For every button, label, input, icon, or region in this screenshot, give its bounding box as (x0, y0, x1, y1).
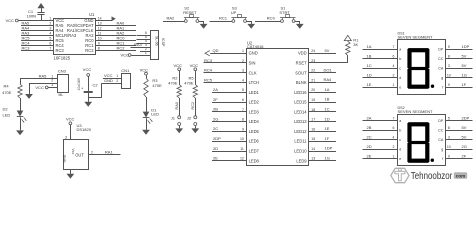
svg-text:LED13: LED13 (294, 119, 307, 124)
svg-text:a: a (399, 48, 401, 52)
svg-text:VCC: VCC (6, 18, 15, 23)
svg-text:20: 20 (311, 88, 315, 92)
svg-text:b: b (399, 57, 401, 61)
svg-text:ICSP: ICSP (161, 38, 165, 47)
svg-text:5V: 5V (462, 63, 467, 68)
svg-text:e: e (399, 86, 401, 90)
svg-text:Tehnoobzor: Tehnoobzor (411, 171, 453, 182)
svg-text:VCC: VCC (35, 85, 44, 90)
svg-text:2: 2 (91, 151, 93, 155)
svg-text:a: a (399, 119, 401, 123)
svg-text:10: 10 (447, 73, 451, 77)
svg-text:RA1: RA1 (105, 150, 114, 155)
svg-text:24: 24 (311, 49, 315, 53)
svg-text:21: 21 (311, 78, 315, 82)
svg-text:2E: 2E (213, 156, 218, 161)
svg-text:b: b (399, 129, 401, 133)
svg-text:R3: R3 (152, 78, 158, 83)
svg-text:15: 15 (311, 137, 315, 141)
svg-text:10: 10 (240, 137, 244, 141)
svg-text:2G: 2G (213, 116, 218, 121)
svg-text:5V: 5V (462, 125, 467, 130)
svg-text:RSET: RSET (296, 60, 307, 65)
svg-text:1F: 1F (325, 136, 330, 141)
svg-text:7: 7 (393, 116, 395, 120)
svg-text:4: 4 (49, 32, 51, 36)
svg-text:g: g (441, 76, 443, 80)
svg-text:13: 13 (98, 22, 102, 26)
svg-text:VCC: VCC (174, 63, 183, 68)
svg-text:3: 3 (49, 27, 51, 31)
svg-text:2: 2 (393, 145, 395, 149)
svg-text:RA0: RA0 (175, 102, 179, 109)
svg-text:2F: 2F (462, 153, 467, 158)
svg-text:7: 7 (393, 45, 395, 49)
svg-text:RC3: RC3 (204, 58, 213, 63)
svg-text:14: 14 (311, 147, 315, 151)
svg-text:ML: ML (59, 93, 64, 97)
svg-text:LED10: LED10 (294, 149, 307, 154)
svg-text:8: 8 (98, 47, 100, 51)
svg-text:5V: 5V (462, 53, 467, 58)
svg-text:7: 7 (242, 108, 244, 112)
svg-text:SL-06: SL-06 (155, 36, 159, 46)
svg-text:5: 5 (242, 88, 244, 92)
svg-text:LED7: LED7 (249, 149, 260, 154)
svg-text:com: com (456, 173, 465, 178)
svg-text:RA3: RA3 (134, 42, 143, 47)
svg-text:1E: 1E (325, 126, 330, 131)
svg-text:RC5: RC5 (204, 77, 213, 82)
svg-text:LED9: LED9 (296, 158, 307, 163)
svg-text:LTCH: LTCH (249, 80, 259, 85)
svg-text:RA5: RA5 (39, 73, 48, 78)
svg-text:RESET: RESET (183, 10, 197, 15)
svg-text:2B: 2B (367, 125, 372, 130)
svg-text:d: d (399, 148, 401, 152)
svg-text:LED16: LED16 (294, 90, 307, 95)
svg-text:LED15: LED15 (294, 100, 307, 105)
svg-text:RC2: RC2 (191, 102, 195, 110)
svg-text:LED6: LED6 (249, 139, 260, 144)
svg-text:2DP: 2DP (462, 115, 470, 120)
svg-text:DO1: DO1 (324, 67, 333, 72)
svg-text:6: 6 (393, 54, 395, 58)
svg-text:2F: 2F (213, 97, 218, 102)
svg-text:12: 12 (98, 27, 102, 31)
svg-text:1E: 1E (367, 82, 372, 87)
svg-text:2: 2 (49, 22, 51, 26)
svg-text:GND: GND (63, 154, 67, 162)
svg-text:2A: 2A (213, 87, 218, 92)
svg-text:2G: 2G (462, 144, 467, 149)
svg-text:7: 7 (49, 47, 51, 51)
svg-text:16F1825: 16F1825 (54, 56, 71, 61)
svg-text:2: 2 (393, 73, 395, 77)
svg-text:DP: DP (438, 119, 444, 123)
svg-text:CA: CA (438, 138, 444, 142)
svg-text:CA: CA (438, 67, 444, 71)
svg-text:RA2: RA2 (167, 16, 176, 21)
svg-text:LED: LED (151, 112, 159, 117)
svg-text:9: 9 (448, 154, 450, 158)
svg-text:SOUT: SOUT (295, 70, 307, 75)
svg-text:OUT: OUT (75, 152, 84, 157)
svg-text:CN1: CN1 (121, 68, 130, 73)
svg-text:DS1820: DS1820 (77, 127, 92, 132)
svg-text:2DP: 2DP (213, 136, 221, 141)
svg-text:VDD: VDD (298, 51, 307, 56)
svg-text:VCC: VCC (140, 67, 149, 72)
svg-text:470E: 470E (152, 83, 162, 88)
svg-text:LED5: LED5 (249, 129, 260, 134)
svg-text:RC1: RC1 (219, 16, 228, 21)
svg-text:RC4: RC4 (204, 68, 213, 73)
svg-text:3K: 3K (353, 42, 358, 47)
svg-text:3: 3 (448, 135, 450, 139)
svg-text:1C: 1C (367, 63, 372, 68)
svg-text:8: 8 (448, 54, 450, 58)
svg-text:LED4: LED4 (249, 119, 260, 124)
svg-text:4: 4 (393, 64, 395, 68)
svg-text:470E: 470E (2, 90, 12, 95)
svg-text:DP: DP (438, 48, 444, 52)
svg-text:e: e (399, 157, 401, 161)
svg-text:5: 5 (49, 37, 51, 41)
svg-text:RC2: RC2 (117, 46, 126, 51)
svg-text:VCC: VCC (66, 116, 75, 121)
svg-text:SEVEN SEGMENT: SEVEN SEGMENT (398, 110, 434, 114)
svg-text:BLNK: BLNK (296, 80, 307, 85)
svg-text:10u/16V: 10u/16V (77, 77, 81, 90)
svg-text:17: 17 (311, 118, 315, 122)
svg-text:LED11: LED11 (294, 139, 307, 144)
svg-text:CC: CC (438, 57, 444, 61)
svg-text:C2: C2 (93, 82, 99, 87)
svg-text:470E: 470E (168, 81, 178, 86)
svg-text:RC3: RC3 (22, 46, 31, 51)
svg-text:1F: 1F (462, 82, 467, 87)
svg-text:RC3: RC3 (56, 48, 65, 53)
svg-text:CLK: CLK (249, 70, 257, 75)
svg-text:RC0: RC0 (267, 16, 276, 21)
svg-text:2C: 2C (213, 126, 218, 131)
svg-text:9: 9 (242, 127, 244, 131)
svg-text:c: c (399, 138, 401, 142)
svg-text:9: 9 (448, 83, 450, 87)
svg-text:2D: 2D (213, 146, 218, 151)
svg-text:5V: 5V (462, 134, 467, 139)
svg-text:1: 1 (242, 49, 244, 53)
svg-text:CN3: CN3 (58, 69, 67, 74)
svg-text:LED: LED (3, 112, 11, 117)
svg-text:1G: 1G (462, 72, 467, 77)
svg-text:2A: 2A (367, 115, 372, 120)
svg-text:UP: UP (231, 10, 237, 15)
svg-text:LED3: LED3 (249, 109, 260, 114)
svg-text:2E: 2E (367, 153, 372, 158)
svg-text:STRT: STRT (279, 10, 290, 15)
svg-text:8: 8 (242, 118, 244, 122)
svg-text:f: f (442, 157, 443, 161)
svg-text:f: f (442, 86, 443, 90)
svg-text:VCC: VCC (121, 53, 130, 58)
svg-text:1: 1 (49, 17, 51, 21)
svg-text:1B: 1B (325, 97, 330, 102)
svg-text:2C: 2C (367, 134, 372, 139)
svg-text:1D: 1D (325, 116, 330, 121)
svg-text:6: 6 (242, 98, 244, 102)
svg-text:g: g (441, 148, 443, 152)
svg-text:11: 11 (240, 147, 244, 151)
svg-text:1B: 1B (367, 53, 372, 58)
svg-text:1: 1 (393, 154, 395, 158)
svg-text:2D: 2D (367, 144, 372, 149)
svg-text:SEVEN SEGMENT: SEVEN SEGMENT (398, 35, 434, 39)
svg-text:VCC: VCC (190, 63, 199, 68)
svg-text:GND: GND (104, 78, 113, 83)
svg-text:3: 3 (448, 64, 450, 68)
svg-text:6: 6 (393, 126, 395, 130)
svg-text:RA4: RA4 (324, 77, 333, 82)
svg-text:1: 1 (393, 83, 395, 87)
svg-text:1DP: 1DP (325, 146, 333, 151)
svg-text:19: 19 (311, 98, 315, 102)
svg-text:RC2: RC2 (85, 48, 94, 53)
svg-text:1C: 1C (325, 106, 330, 111)
svg-text:4: 4 (393, 135, 395, 139)
svg-text:LED1: LED1 (249, 90, 260, 95)
svg-text:6: 6 (49, 42, 51, 46)
svg-text:LED2: LED2 (249, 100, 260, 105)
svg-text:1DP: 1DP (462, 44, 470, 49)
svg-text:5: 5 (448, 116, 450, 120)
svg-text:470E: 470E (184, 81, 194, 86)
svg-text:R4: R4 (4, 83, 10, 88)
svg-text:2: 2 (242, 59, 244, 63)
svg-text:10: 10 (447, 145, 451, 149)
svg-text:SIN: SIN (249, 60, 256, 65)
svg-text:3: 3 (242, 69, 244, 73)
svg-text:LED8: LED8 (249, 158, 260, 163)
svg-text:d: d (399, 76, 401, 80)
svg-text:11: 11 (98, 32, 102, 36)
svg-text:100N: 100N (27, 14, 37, 19)
svg-text:2: 2 (116, 79, 118, 83)
svg-text:1: 1 (116, 74, 118, 78)
svg-text:8: 8 (448, 126, 450, 130)
svg-text:1G: 1G (325, 155, 330, 160)
svg-text:5: 5 (448, 45, 450, 49)
svg-text:GND: GND (249, 51, 258, 56)
svg-text:QD: QD (213, 48, 219, 53)
svg-text:LED14: LED14 (294, 109, 307, 114)
svg-text:VCC: VCC (83, 67, 92, 72)
svg-text:U1: U1 (89, 12, 95, 17)
svg-text:c: c (399, 67, 401, 71)
svg-text:1A: 1A (325, 87, 330, 92)
svg-text:2B: 2B (213, 107, 218, 112)
svg-text:10: 10 (98, 37, 102, 41)
svg-text:3: 3 (65, 136, 67, 140)
svg-text:1A: 1A (367, 44, 372, 49)
svg-text:5V: 5V (325, 48, 330, 53)
svg-text:D2: D2 (3, 107, 9, 112)
svg-text:LED12: LED12 (294, 129, 307, 134)
svg-text:CC: CC (438, 129, 444, 133)
svg-text:14: 14 (98, 17, 102, 21)
svg-text:16: 16 (311, 127, 315, 131)
svg-text:1D: 1D (367, 72, 372, 77)
svg-text:CAT4016: CAT4016 (247, 44, 264, 49)
svg-text:4: 4 (242, 78, 244, 82)
svg-text:9: 9 (98, 42, 100, 46)
